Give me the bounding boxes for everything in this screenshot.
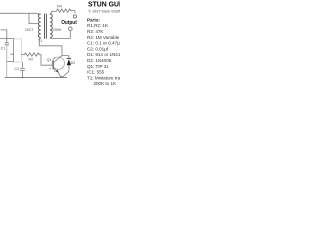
transistor Q1 emitter arrow [56, 70, 59, 73]
wire branch to center tap [29, 13, 38, 23]
parts list [87, 17, 126, 86]
wire ground rail [5, 77, 67, 79]
transformer T1 secondary bottom lead / output wire [50, 31, 70, 39]
transformer T1 primary bottom lead to Q1 [39, 38, 62, 56]
wire pin3 to R2 [21, 54, 24, 56]
svg-text:C1: 0.1 or 0.47µf: C1: 0.1 or 0.47µf [87, 41, 120, 46]
transformer T1 primary top lead [38, 12, 41, 15]
svg-text:R3: 47K: R3: 47K [87, 29, 103, 34]
svg-text:R4: R4 [57, 4, 62, 8]
wire pin stub [11, 53, 14, 55]
svg-text:STUN GUN: STUN GUN [88, 0, 120, 9]
svg-text:T1: Miniature tran: T1: Miniature tran [87, 75, 120, 80]
output terminal 2 [69, 27, 73, 31]
wire pin1 ground stub [7, 61, 14, 63]
transistor Q1 base bar [52, 61, 54, 70]
svg-text:D2: D2 [71, 61, 76, 65]
svg-text:1KCT: 1KCT [25, 28, 33, 32]
svg-text:Parts:: Parts: [87, 17, 100, 22]
svg-text:Q1: TIP 31: Q1: TIP 31 [87, 64, 109, 69]
wire R2 to base [39, 55, 53, 66]
node junction R4 [51, 11, 52, 12]
svg-text:C2: 0.01µf: C2: 0.01µf [87, 46, 109, 51]
transistor Q1 circle [52, 57, 64, 69]
wire R4 to terminal [71, 11, 75, 14]
wire to R4 [52, 10, 57, 12]
transformer T1 primary winding [38, 14, 40, 38]
IC1 555 box faint outline [14, 39, 22, 62]
svg-text:b: b [50, 66, 52, 70]
wire left feed at y38 to IC [0, 38, 14, 40]
wire left feed at y30 [1, 30, 7, 39]
svg-text:200K to 1K: 200K to 1K [94, 81, 117, 86]
diode D2 [67, 58, 72, 60]
resistor R2 [24, 53, 39, 56]
output terminal 1 [73, 15, 76, 18]
transformer T1 secondary winding [50, 14, 52, 38]
wire to D2 [62, 55, 69, 58]
svg-text:Output: Output [61, 20, 77, 26]
svg-text:D1: 914 or 1N4148: D1: 914 or 1N4148 [87, 52, 120, 57]
svg-text:R4: 1M Variable: R4: 1M Variable [87, 35, 120, 40]
wire C1 to ground [6, 45, 8, 78]
svg-text:Q1: Q1 [47, 58, 52, 62]
svg-text:R2: R2 [29, 58, 34, 62]
node C2 ground junction [22, 77, 23, 78]
svg-text:© 1997 Mark Shaffer: © 1997 Mark Shaffer [88, 9, 120, 13]
svg-text:IC1: 555: IC1: 555 [87, 70, 105, 75]
resistor R4 [57, 9, 71, 12]
transformer T1 core [45, 14, 47, 39]
transistor Q1 collector [53, 56, 62, 63]
svg-text:R1,R2: 1K: R1,R2: 1K [87, 23, 108, 28]
wire V+ top rail [0, 13, 39, 14]
node junction C1 [6, 38, 7, 39]
svg-text:D2: 1N4005: D2: 1N4005 [87, 58, 112, 63]
IC1 555 box left edge [13, 39, 15, 62]
node emitter ground junction [61, 76, 63, 78]
capacitor C2 [20, 62, 25, 78]
svg-text:T1: T1 [38, 39, 42, 43]
svg-text:C2: C2 [15, 67, 19, 71]
svg-text:200K: 200K [53, 28, 62, 32]
svg-text:C1: C1 [1, 47, 6, 51]
capacitor C1 [5, 39, 9, 45]
transistor Q1 emitter [53, 68, 61, 77]
transformer T1 secondary top lead [50, 11, 52, 14]
